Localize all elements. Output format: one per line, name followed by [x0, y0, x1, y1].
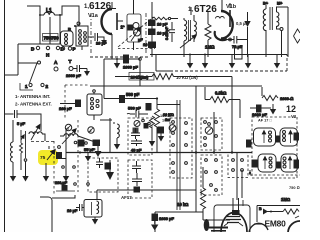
svg-text:2- ANTENNA EXT.: 2- ANTENNA EXT.	[15, 102, 52, 107]
wire hv rail right	[261, 87, 263, 96]
svg-text:75: 75	[40, 155, 46, 161]
resistor 1M em80	[259, 197, 299, 215]
wire left frame border	[4, 0, 6, 232]
svg-text:750 Ω: 750 Ω	[289, 185, 300, 190]
ground g1	[114, 59, 120, 69]
svg-text:5 µF: 5 µF	[17, 121, 26, 126]
svg-text:3-15 pF: 3-15 pF	[165, 26, 169, 40]
transformer IF can 3 dashed lower	[128, 160, 152, 198]
svg-text:R: R	[68, 27, 71, 32]
ground arrow mid	[85, 152, 91, 162]
legend antenna text	[15, 94, 52, 107]
wire dashed bottom right	[250, 174, 300, 176]
node terminal D right	[56, 46, 64, 51]
capacitor 1000pF bottom	[151, 214, 174, 231]
svg-text:1ª: 1ª	[121, 25, 125, 30]
svg-text:V1b: V1b	[226, 4, 237, 10]
capacitor 100pF osc grid	[59, 100, 81, 111]
tube base B4	[281, 154, 298, 172]
svg-text:10 KΩ: 10 KΩ	[160, 114, 171, 118]
svg-text:1- ANTENNA INT.: 1- ANTENNA INT.	[15, 94, 50, 99]
svg-text:A: A	[54, 60, 58, 66]
svg-text:V1a: V1a	[88, 13, 99, 19]
tube V4 envelope bottom left	[221, 198, 247, 232]
tube output bottom	[204, 205, 250, 235]
ground arrow bl2	[63, 176, 69, 182]
socket V3 dashed box	[201, 118, 222, 150]
svg-text:500 pF: 500 pF	[128, 106, 141, 111]
svg-text:1MΩ: 1MΩ	[281, 197, 290, 202]
capacitor 2000pF antenna	[66, 65, 87, 78]
wire shield box dashed right	[170, 55, 287, 72]
svg-text:1000-Ω: 1000-Ω	[280, 96, 293, 101]
capacitor variable tuning gang C1	[121, 0, 155, 50]
resistor 6.8k screen	[205, 87, 240, 118]
node terminal A	[54, 60, 58, 71]
inductor antenna coupling coil	[61, 27, 74, 47]
svg-text:6T26: 6T26	[194, 4, 217, 15]
tube V5 envelope small	[249, 223, 268, 232]
ground g8	[274, 55, 280, 69]
wire gang mech diagonal	[118, 17, 153, 47]
ground g5	[202, 54, 208, 69]
tube label 12 partial	[286, 104, 297, 119]
svg-text:10 pF: 10 pF	[157, 22, 168, 27]
capacitor 200pF diode box	[55, 181, 75, 191]
svg-text:10 pF: 10 pF	[86, 148, 97, 152]
wire osc to bus	[78, 120, 112, 153]
resistor 104 ohm 1w	[115, 73, 232, 81]
tube label 6T26	[188, 4, 237, 15]
capacitor 10pF trimmer b	[149, 29, 169, 36]
capacitor 1k bypass left	[247, 133, 299, 168]
svg-text:1000 pF: 1000 pF	[252, 112, 267, 117]
capacitor 10pF trimmer a	[149, 20, 169, 27]
resistor box load	[216, 17, 243, 60]
capacitor IF top detail	[133, 119, 150, 132]
capacitor ratio left	[76, 204, 84, 211]
diode detector D1	[244, 12, 250, 57]
ground arrow bottom left big	[106, 160, 114, 180]
capacitor 10uF cathode	[86, 140, 101, 157]
wire coil taps	[40, 15, 62, 44]
trimmer circle 1	[65, 124, 71, 130]
wire osc mid verticals	[46, 128, 66, 176]
svg-text:1,: 1,	[188, 7, 193, 13]
wire em80 stem	[242, 200, 244, 206]
resistor 1M ohm grid leak	[205, 12, 215, 57]
inductor osc coil can	[87, 90, 102, 120]
resistor 757 highlighted trimmer	[40, 151, 54, 161]
wire em80 box	[257, 206, 300, 223]
wire osc feed top	[17, 114, 41, 131]
svg-text:H: H	[46, 53, 50, 58]
svg-text:pF: pF	[138, 38, 143, 42]
tube label EM80	[265, 219, 287, 229]
node bus joints	[79, 151, 101, 153]
transformer IF can 2 dashed	[128, 118, 152, 155]
resistor 10K right label	[160, 114, 171, 123]
node socket pins left	[62, 141, 90, 185]
socket right dashed	[228, 153, 248, 178]
svg-text:T: T	[69, 59, 72, 65]
svg-text:200 pF: 200 pF	[55, 181, 68, 185]
wire av line	[97, 189, 196, 191]
tube V1a envelope	[102, 2, 124, 59]
switch S1 antenna selector	[20, 61, 49, 90]
trimmer adj V3	[205, 123, 213, 135]
ground g6	[229, 55, 235, 69]
tube base B3	[258, 154, 276, 172]
tube base B1	[254, 128, 276, 146]
box AF17 dashed	[252, 117, 297, 178]
svg-text:12: 12	[286, 104, 296, 114]
inductor IF primary	[110, 118, 120, 153]
wire bottom left hook	[40, 195, 78, 232]
wire em80 feed verticals	[237, 153, 250, 201]
ground g7	[245, 55, 251, 69]
svg-text:10 pF: 10 pF	[96, 41, 107, 46]
node dot	[249, 172, 251, 174]
connector chevron right edge	[294, 29, 301, 43]
wire gang link dashed	[90, 13, 92, 55]
tube EM80 envelope	[288, 216, 300, 232]
inductor oscillator coil L2	[180, 15, 196, 57]
svg-text:1000 pF: 1000 pF	[123, 65, 138, 70]
wire center verticals 2	[196, 112, 214, 212]
svg-text:2: 2	[46, 84, 49, 89]
capacitor 30pF trimmer c	[138, 38, 156, 48]
wire main bus lower	[66, 152, 252, 154]
resistor 1000 ohm	[262, 96, 293, 102]
inductor osc tank	[60, 130, 95, 144]
node terminal P	[61, 47, 75, 52]
capacitor bypass mid	[158, 127, 164, 142]
capacitor 10pF grid	[88, 33, 107, 46]
capacitor 50pF	[128, 104, 151, 111]
capacitor 70pF coupling	[224, 36, 248, 49]
svg-text:1w: 1w	[162, 119, 167, 123]
wire osc box dashed	[65, 85, 90, 120]
node tap junctions	[39, 14, 76, 27]
wire avc rail	[90, 77, 262, 153]
transformer T1 output primary	[263, 2, 272, 31]
svg-text:10 KΩ (1w): 10 KΩ (1w)	[176, 75, 198, 80]
node terminal D left	[31, 46, 40, 51]
resistor 10k bottom	[177, 167, 206, 212]
inductor variable osc padder	[29, 126, 45, 141]
node terminal T	[69, 59, 74, 71]
transformer T1 secondary	[277, 2, 289, 58]
wire shield box dashed left	[90, 56, 150, 58]
capacitor 750pF pair labels	[43, 34, 60, 42]
svg-text:6.8kΩ: 6.8kΩ	[215, 91, 226, 96]
highlight marker yellow	[38, 150, 58, 165]
capacitor 5uF mains	[5, 110, 26, 126]
svg-text:100 pF: 100 pF	[59, 106, 72, 111]
svg-text:1MΩ: 1MΩ	[205, 45, 215, 50]
inductor L1	[40, 8, 56, 15]
trimmer circle 2	[88, 127, 94, 133]
wire trimmer rail	[152, 2, 191, 57]
capacitor 50pF osc	[78, 140, 95, 152]
tube base B2	[280, 128, 298, 146]
wire dashed link bottom left	[31, 141, 54, 143]
capacitor 1000pF bypass	[104, 55, 141, 86]
svg-text:AF 17 □: AF 17 □	[258, 119, 272, 123]
ground g4	[187, 54, 193, 69]
svg-text:M+: M+	[277, 2, 283, 6]
svg-text:1: 1	[25, 84, 28, 89]
svg-text:B: B	[259, 207, 262, 211]
wire top section bottom rail	[150, 54, 287, 56]
wire long verticals center	[177, 100, 180, 210]
wire dashed screen left	[54, 120, 78, 196]
tube V1b envelope	[215, 0, 233, 40]
svg-text:10 kΩ: 10 kΩ	[177, 202, 188, 207]
svg-text:P: P	[73, 47, 76, 52]
socket V2 dashed box	[170, 118, 192, 178]
svg-text:V3: V3	[291, 114, 297, 119]
resistor 0.5M volume	[236, 21, 248, 26]
svg-text:10 µF: 10 µF	[67, 208, 78, 213]
capacitor pair det box	[88, 158, 118, 192]
wire transformer returns	[265, 30, 267, 57]
wire terminal bus	[18, 43, 60, 45]
wire bottom box	[155, 212, 230, 232]
trimmer adj V2	[169, 125, 176, 132]
ground antenna	[84, 69, 90, 77]
ground arrow bl1	[43, 176, 49, 182]
capacitor top IF	[127, 111, 148, 118]
svg-text:500 pF: 500 pF	[126, 92, 140, 97]
inductor filter choke	[10, 120, 16, 182]
capacitor padder small	[57, 146, 62, 159]
svg-text:B+: B+	[263, 2, 269, 6]
svg-text:2000 pF: 2000 pF	[66, 73, 81, 78]
socket V3 lower dashed	[201, 155, 222, 195]
wire gang link dashed right	[145, 13, 147, 55]
capacitor 3-15pF padder	[165, 22, 175, 42]
resistor detector load vertical	[149, 116, 155, 147]
transformer IF input can	[76, 22, 88, 50]
svg-text:AF17: AF17	[121, 195, 132, 200]
capacitor 500pF coupling	[104, 86, 158, 103]
transformer ratio detector can	[84, 190, 102, 225]
capacitor 1000pF screen	[250, 104, 276, 117]
svg-text:1000 pF: 1000 pF	[159, 216, 174, 221]
svg-text:40 pF: 40 pF	[131, 148, 142, 153]
svg-text:D: D	[31, 47, 35, 52]
svg-text:750: 750	[51, 36, 59, 41]
resistor 750 ohm label	[289, 185, 300, 190]
svg-text:EM80: EM80	[265, 219, 287, 229]
resistor 10K ohm 1w label	[176, 75, 198, 80]
resistor ballast vertical	[20, 130, 29, 182]
node bus dots	[195, 151, 233, 153]
resistor 10K ohm vertical	[155, 99, 181, 153]
wire switch feed	[5, 44, 38, 75]
tube label 6126	[84, 1, 112, 19]
wire antenna feed top	[27, 6, 79, 26]
node terminal H center	[46, 46, 50, 57]
